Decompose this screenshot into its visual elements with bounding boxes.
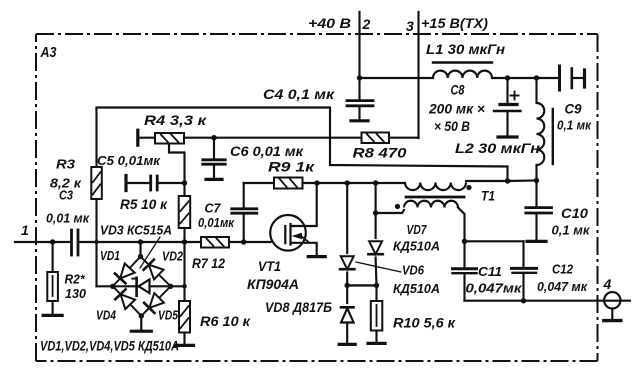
label VD5 <box>158 308 179 323</box>
svg-text:L2 30 мкГн: L2 30 мкГн <box>455 140 541 156</box>
node drain junction <box>314 180 319 185</box>
ground chassis R10 <box>368 342 385 345</box>
transistor VT1 channel <box>289 224 291 245</box>
wire bridge top stub <box>139 242 141 257</box>
label VD6 КД510А <box>393 263 440 297</box>
wire R3 to bridge <box>97 199 113 286</box>
ground chassis C10 <box>527 240 546 243</box>
capacitor C4 <box>347 78 373 120</box>
label 1 <box>21 222 29 238</box>
label note VD1,VD2,VD4,VD5 КД510А <box>40 339 179 354</box>
svg-text:КП904А: КП904А <box>247 276 299 292</box>
capacitor C9 <box>560 66 584 90</box>
node VD7/R10 junction <box>374 283 379 288</box>
svg-text:130: 130 <box>65 286 87 301</box>
ground chassis C6 <box>206 178 222 181</box>
svg-text:VD1,VD2,VD4,VD5 КД510А: VD1,VD2,VD4,VD5 КД510А <box>40 339 179 354</box>
svg-text:С5 0,01мк: С5 0,01мк <box>97 153 161 168</box>
ground chassis R2 <box>43 314 62 317</box>
svg-text:С9: С9 <box>565 102 582 117</box>
resistor R5 <box>179 196 191 228</box>
svg-text:С10: С10 <box>561 205 588 221</box>
svg-text:С4 0,1 мк: С4 0,1 мк <box>263 86 335 102</box>
node +40V/C4 junction <box>357 75 362 80</box>
svg-text:VD3 КС515А: VD3 КС515А <box>100 223 172 238</box>
svg-text:2: 2 <box>362 16 371 32</box>
label R3 8,2 к <box>50 157 83 191</box>
ground chassis VD8 <box>339 343 355 346</box>
ground chassis R4 left <box>136 130 139 145</box>
transformer T1 secondary <box>376 201 465 241</box>
diode VD1 <box>115 264 135 284</box>
core of T1 <box>406 196 464 199</box>
svg-text:0,047мк: 0,047мк <box>466 281 524 296</box>
wire VD8 top <box>346 285 348 303</box>
label R4 3,3 к <box>144 112 207 128</box>
svg-text:Т1: Т1 <box>481 188 495 204</box>
label A3 <box>40 45 57 61</box>
phasing dot secondary <box>395 204 400 209</box>
label C8 200мк x 50В <box>428 83 485 135</box>
svg-text:R8 470: R8 470 <box>353 145 407 161</box>
svg-text:+40 В: +40 В <box>308 15 351 31</box>
ground chassis bridge <box>131 330 151 333</box>
resistor R4 <box>155 133 184 144</box>
zener VD3 <box>132 278 149 296</box>
label VD7 КД510А <box>393 222 440 254</box>
label R6 10 к <box>200 313 251 329</box>
wire R7 to gate <box>229 241 271 243</box>
wire bridge edge bottom-right <box>141 286 170 316</box>
label C6 0,01 мк <box>230 143 304 159</box>
svg-text:R10 5,6 к: R10 5,6 к <box>393 315 456 331</box>
wire C3 to R7 <box>78 241 201 243</box>
wire tank to L2/C10 <box>508 179 537 182</box>
svg-text:R6 10 к: R6 10 к <box>200 313 251 329</box>
label КП904А <box>247 276 299 292</box>
label R8 470 <box>353 145 407 161</box>
node secondary tap <box>373 210 378 215</box>
label VD4 <box>96 308 117 323</box>
svg-text:С11: С11 <box>478 264 502 279</box>
node bridge bottom <box>139 313 144 318</box>
terminal 1 wire <box>15 241 71 243</box>
capacitor C8 <box>494 78 521 136</box>
wire primary right <box>466 180 508 182</box>
diode VD4 <box>115 289 135 309</box>
node R5/bus junction <box>182 239 187 244</box>
diode VD6 <box>340 256 354 269</box>
wire VD7 branch top <box>375 183 377 238</box>
svg-text:200 мк ×: 200 мк × <box>428 102 485 117</box>
pin number 2 <box>362 16 371 32</box>
svg-text:VD1: VD1 <box>100 248 120 263</box>
node L2 top junction <box>534 75 539 80</box>
leader line VD6 <box>356 262 401 272</box>
svg-text:VD5: VD5 <box>158 308 179 323</box>
label +15 В(ТХ) <box>421 15 488 31</box>
label L1 30 мкГн <box>426 41 506 57</box>
wire R4 left <box>138 137 155 139</box>
label 4 <box>603 276 612 292</box>
label C3 0,01 мк <box>46 188 90 226</box>
svg-text:× 50 В: × 50 В <box>434 119 470 134</box>
ground chassis C4 <box>351 119 368 122</box>
zener VD8 <box>341 307 354 322</box>
capacitor C7 <box>232 183 257 242</box>
wire bridge edge bottom-left <box>113 286 142 316</box>
wire bridge right stub <box>171 285 185 287</box>
label VD1 <box>100 248 120 263</box>
svg-text:R9 1к: R9 1к <box>268 159 315 175</box>
capacitor C12 <box>512 268 537 300</box>
wire VD8 bottom <box>346 323 348 344</box>
resistor R8 <box>362 133 390 144</box>
node secondary/C11 junction <box>462 239 467 244</box>
label C5 0,01мк <box>97 153 161 168</box>
svg-text:3: 3 <box>406 18 414 34</box>
transistor VT1 source lead <box>291 243 317 255</box>
resistor R2* <box>47 242 58 314</box>
diode VD7 <box>368 241 382 254</box>
node bridge right <box>168 284 173 289</box>
capacitor C11 <box>453 241 477 300</box>
wire junction bar <box>347 284 376 286</box>
label C12 0,047 мк <box>537 262 588 295</box>
label R7 12 <box>192 255 225 271</box>
label C7 0,01мк <box>198 201 235 231</box>
label R5 10 к <box>120 196 168 212</box>
node VD6 branch junction <box>345 180 350 185</box>
node bridge-right/R6 junction <box>182 284 187 289</box>
svg-text:L1 30 мкГн: L1 30 мкГн <box>426 41 506 57</box>
core of L1 <box>433 61 492 63</box>
terminal 2 (+40 V) wire <box>358 12 360 78</box>
polarity + of C8 <box>511 92 519 100</box>
node VD7 branch junction <box>373 180 378 185</box>
node R2 junction <box>50 239 55 244</box>
svg-text:R5 10 к: R5 10 к <box>120 196 168 212</box>
label R2* 130 <box>65 272 87 302</box>
svg-text:VD2: VD2 <box>162 249 184 264</box>
svg-text:1: 1 <box>21 222 29 238</box>
node R3/bus junction <box>94 240 98 244</box>
capacitor C10 <box>526 181 552 241</box>
node C7/gate junction <box>241 239 246 244</box>
resistor R6 <box>179 301 190 333</box>
capacitor C5 <box>126 176 185 190</box>
wire R3-top rail <box>97 108 508 182</box>
terminal 3 (+15 V TX) wire <box>417 12 419 138</box>
label R10 5,6 к <box>393 315 456 331</box>
resistor R7 <box>201 237 229 248</box>
wire bridge edge top-left <box>113 257 141 287</box>
enclosure dashed border A3 <box>36 34 598 361</box>
svg-text:0,01 мк: 0,01 мк <box>46 211 90 226</box>
wire VD6 branch top <box>346 183 348 253</box>
diode VD2 <box>144 260 164 280</box>
wire R5 to R6 <box>183 228 185 301</box>
svg-text:R7 12: R7 12 <box>192 255 225 271</box>
ground chassis C8 <box>498 135 517 138</box>
svg-text:С8: С8 <box>451 83 465 98</box>
node tank junction <box>505 178 510 183</box>
svg-text:R3: R3 <box>56 157 76 172</box>
label +40 В <box>308 15 351 31</box>
label VD3 КС515А <box>100 223 172 238</box>
resistor R10 <box>371 285 383 342</box>
terminal 4 <box>604 292 620 308</box>
svg-text:R4 3,3 к: R4 3,3 к <box>144 112 207 128</box>
label C4 0,1 мк <box>263 86 335 102</box>
svg-text:VD8 Д817Б: VD8 Д817Б <box>265 299 332 315</box>
wire C11-C12 top <box>465 241 524 267</box>
wire R4 bottom tap <box>169 144 185 197</box>
wire R3 top <box>95 108 97 167</box>
wire +40V rail <box>360 77 434 79</box>
node bridge top <box>138 254 143 259</box>
node L1/C8 junction <box>505 75 510 80</box>
label VD8 Д817Б <box>265 299 332 315</box>
ground chassis C5 left <box>124 176 127 191</box>
transistor VT1 drain lead <box>291 183 317 226</box>
svg-text:4: 4 <box>603 276 612 292</box>
label C11 0,047мк <box>466 264 524 296</box>
svg-text:С6 0,01 мк: С6 0,01 мк <box>230 143 304 159</box>
leader line VD3 <box>140 237 160 268</box>
core of L2 <box>552 109 554 164</box>
svg-text:А3: А3 <box>40 45 57 61</box>
svg-text:КД510А: КД510А <box>393 239 440 254</box>
svg-text:+15 В(ТХ): +15 В(ТХ) <box>421 15 488 31</box>
diode VD5 <box>144 293 164 313</box>
svg-text:VT1: VT1 <box>258 258 281 274</box>
transformer T1 primary <box>405 183 466 191</box>
svg-text:VD6: VD6 <box>402 263 425 278</box>
pin number 3 <box>406 18 414 34</box>
wire R8 right <box>389 137 419 139</box>
svg-text:0,047 мк: 0,047 мк <box>537 279 588 294</box>
wire output <box>465 300 631 302</box>
node bridge left <box>110 284 115 289</box>
svg-text:R2*: R2* <box>65 272 86 287</box>
transistor VT1 substrate arrow <box>292 233 309 242</box>
node C10 junction <box>534 178 539 183</box>
wire R6 bottom <box>183 333 185 345</box>
label L2 30 мкГн <box>455 140 541 156</box>
node bus/bridge junction <box>138 239 143 244</box>
svg-text:VD4: VD4 <box>96 308 117 323</box>
label T1 <box>481 188 495 204</box>
node C5/R5 junction <box>182 180 187 185</box>
node VD6/VD8 junction <box>345 283 350 288</box>
svg-text:VD7: VD7 <box>407 222 428 237</box>
label VT1 <box>258 258 281 274</box>
svg-text:КД510А: КД510А <box>393 281 440 296</box>
label C10 0,1 мк <box>552 205 591 238</box>
label VD2 <box>162 249 184 264</box>
svg-text:0,1 мк: 0,1 мк <box>552 223 591 238</box>
wire L1 to C9 <box>492 77 558 79</box>
wire VD6 to node <box>346 273 348 286</box>
ground chassis R6 <box>176 344 194 347</box>
ground chassis VT1 source <box>308 255 325 258</box>
capacitor C6 <box>203 138 225 178</box>
wire bridge bottom stub <box>140 316 142 330</box>
capacitor C3 <box>72 230 79 255</box>
svg-text:8,2 к: 8,2 к <box>50 176 83 191</box>
svg-text:С12: С12 <box>552 262 574 277</box>
node C6 junction <box>211 135 216 140</box>
svg-text:0,01мк: 0,01мк <box>198 215 235 230</box>
svg-text:С7: С7 <box>205 201 222 216</box>
label C9 0,1мк <box>557 102 592 133</box>
wire R4 to R8 <box>184 137 362 139</box>
transistor VT1 body <box>270 215 306 251</box>
svg-text:0,1 мк: 0,1 мк <box>557 118 592 133</box>
phasing dot primary <box>466 185 471 190</box>
transistor VT1 gate <box>284 226 286 243</box>
node C12/output junction <box>521 298 526 303</box>
inductor L2 <box>537 78 545 181</box>
resistor R3 <box>91 167 102 199</box>
inductor L1 <box>433 71 492 78</box>
label R9 1к <box>268 159 315 175</box>
ground chassis C9 <box>583 70 586 87</box>
wire R9 to T1 <box>303 182 406 184</box>
resistor R9 <box>244 178 303 189</box>
wire VD7 to node <box>375 258 378 286</box>
wire bridge edge top-right <box>141 257 171 287</box>
ground chassis terminal 4 <box>604 309 621 321</box>
wire bridge center <box>113 285 171 287</box>
